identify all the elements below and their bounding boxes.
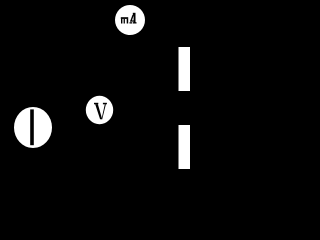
label V	[94, 103, 107, 119]
pointer bar	[30, 109, 34, 145]
resistor R1	[179, 47, 191, 91]
milliammeter mA	[115, 5, 145, 35]
meter dial with pointer (left)	[14, 107, 52, 148]
label mA: letter A	[130, 13, 137, 24]
label mA: letter m	[121, 17, 128, 23]
resistor R2	[179, 125, 191, 169]
voltmeter V	[86, 96, 113, 124]
